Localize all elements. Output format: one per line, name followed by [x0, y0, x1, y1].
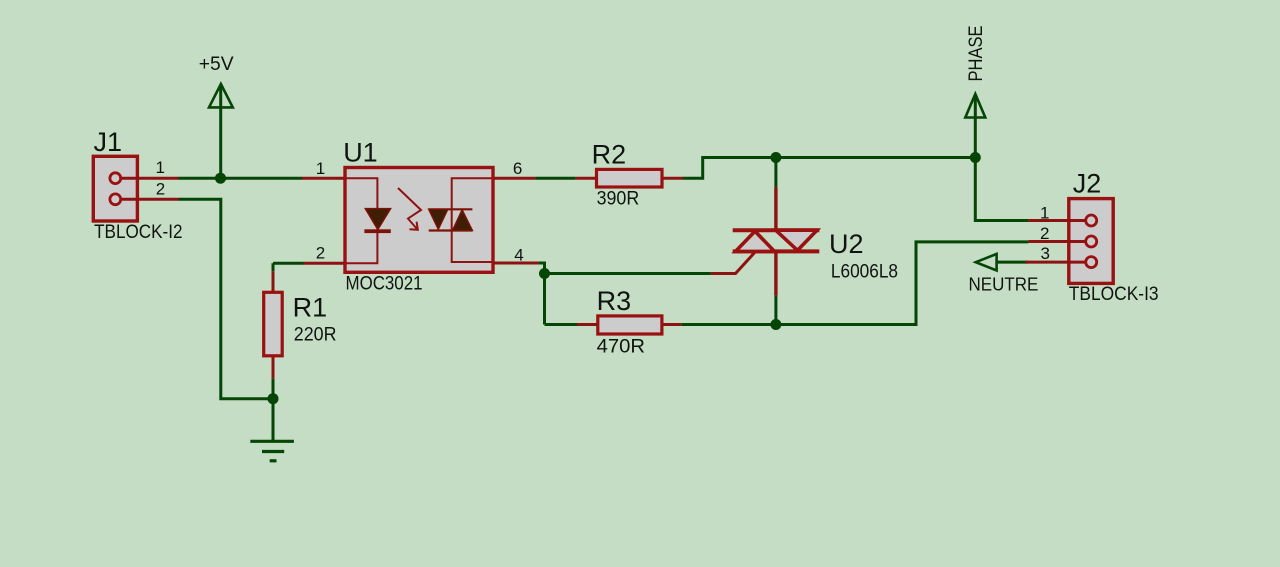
- pin stub U2 gate diagonal: [711, 252, 755, 274]
- svg-text:U2: U2: [829, 229, 864, 259]
- svg-text:1: 1: [316, 159, 325, 178]
- svg-text:+5V: +5V: [199, 54, 234, 75]
- J1 pad circle 2: [110, 194, 121, 205]
- svg-text:470R: 470R: [597, 336, 645, 357]
- pin stub U2 top: [774, 187, 777, 230]
- pin stub U1.6: [493, 177, 535, 180]
- svg-text:2: 2: [1040, 224, 1049, 243]
- wire PHASE arrow stem: [974, 95, 977, 158]
- pin stub R2 right: [662, 177, 683, 180]
- resistor R2 body: [597, 169, 663, 187]
- svg-text:2: 2: [316, 244, 325, 263]
- svg-text:R3: R3: [597, 286, 632, 316]
- wire U1 pin4 jog down: [538, 263, 544, 325]
- svg-text:2: 2: [156, 180, 165, 199]
- pin stub R2 left: [576, 177, 597, 180]
- J1 pad circle 1: [110, 173, 121, 184]
- wire +5V vertical: [219, 85, 222, 178]
- wire NEUTRE to J2 pin3: [998, 261, 1029, 264]
- wire R3 right to U2 node and J2 pin2: [681, 242, 1028, 325]
- node junction above U2: [770, 152, 781, 163]
- node junction R1 bottom: [268, 393, 279, 404]
- svg-text:TBLOCK-I2: TBLOCK-I2: [94, 222, 182, 243]
- node junction PHASE: [970, 152, 981, 163]
- pin stub R3 left: [577, 323, 598, 326]
- pin stub J1.1: [118, 177, 179, 180]
- wire J1 pin1 to U1 pin1: [179, 177, 303, 180]
- pin stub R1 bottom: [272, 356, 275, 379]
- U1 internal left bracket: [347, 178, 378, 263]
- svg-text:1: 1: [1040, 203, 1049, 222]
- ground: [250, 441, 294, 461]
- pin stub U1.4: [493, 262, 538, 265]
- svg-text:4: 4: [514, 245, 523, 264]
- resistor R1 body: [264, 292, 283, 356]
- svg-text:MOC3021: MOC3021: [346, 274, 423, 295]
- U1 internal triac left triangle: [429, 209, 448, 229]
- triac U2 left triangle: [736, 231, 775, 251]
- J2 pad circle 2: [1086, 236, 1097, 247]
- wire J2 pin1 from PHASE: [975, 158, 1028, 221]
- triac U2 right triangle: [776, 230, 817, 250]
- wire gate horizontal: [545, 272, 711, 275]
- svg-text:R2: R2: [592, 139, 627, 169]
- svg-text:390R: 390R: [597, 188, 640, 209]
- svg-text:PHASE: PHASE: [965, 26, 987, 82]
- svg-text:R1: R1: [293, 293, 328, 323]
- svg-text:J2: J2: [1073, 169, 1102, 199]
- resistor R3 body: [598, 316, 662, 334]
- pin stub U1.1: [302, 177, 345, 180]
- pin stub J2.1: [1028, 219, 1089, 222]
- node junction J1.1/+5V: [215, 173, 226, 184]
- connector J2 body TBLOCK-I3: [1069, 199, 1113, 284]
- U1 internal light arrow: [398, 188, 421, 230]
- pin stub U1.2: [304, 262, 346, 265]
- svg-text:L6006L8: L6006L8: [831, 262, 898, 283]
- wire R3 left: [545, 323, 578, 326]
- U1 internal right bracket: [452, 178, 492, 262]
- J2 pad circle 1: [1086, 215, 1097, 226]
- wire U2 top green part: [774, 158, 777, 188]
- svg-text:U1: U1: [343, 138, 378, 168]
- power symbol +5V arrow: [209, 84, 233, 107]
- pin stub R1 top: [272, 271, 275, 292]
- svg-text:J1: J1: [94, 127, 123, 157]
- triac U2 top line: [733, 228, 820, 232]
- U1 internal LED cathode bar: [364, 229, 390, 233]
- node junction pin4/gate: [539, 268, 550, 279]
- pin stub J1.2: [118, 198, 179, 201]
- U1 internal triac right triangle: [453, 210, 473, 231]
- svg-text:6: 6: [513, 159, 522, 178]
- U1 internal LED triangle: [365, 209, 390, 230]
- node junction R3/U2: [770, 319, 781, 330]
- wire U1 pin6 to R2: [535, 177, 575, 180]
- U1 internal triac bottom line: [429, 229, 473, 231]
- connector J1 body TBLOCK-I2: [93, 156, 137, 221]
- pin stub U2 bottom: [774, 251, 777, 295]
- wire R2 to phase rail: [683, 158, 975, 179]
- J2 pad circle 3: [1086, 257, 1097, 268]
- svg-text:3: 3: [1041, 244, 1050, 263]
- U1 internal triac top line: [429, 208, 473, 210]
- wire U2 bottom green part: [774, 295, 777, 324]
- pin stub R3 right: [662, 323, 681, 326]
- svg-text:NEUTRE: NEUTRE: [969, 274, 1039, 294]
- wire J1 pin2 down and to R1 bottom node: [179, 199, 274, 398]
- svg-text:1: 1: [156, 158, 165, 177]
- svg-text:TBLOCK-I3: TBLOCK-I3: [1069, 284, 1159, 305]
- U1 light arrowhead: [410, 222, 418, 230]
- triac U2 bottom line: [733, 249, 820, 253]
- svg-text:220R: 220R: [294, 324, 337, 345]
- wire U1 pin2 horizontal: [273, 262, 304, 265]
- power symbol PHASE arrow: [965, 94, 985, 118]
- wire U1 pin2 corner to R1 top: [272, 263, 275, 271]
- pin stub J2.2: [1028, 240, 1089, 243]
- optocoupler U1 body MOC3021: [345, 168, 493, 273]
- power symbol NEUTRE arrow: [976, 254, 997, 271]
- wire R1 bottom to ground node: [272, 379, 275, 442]
- pin stub J2.3: [1025, 261, 1089, 264]
